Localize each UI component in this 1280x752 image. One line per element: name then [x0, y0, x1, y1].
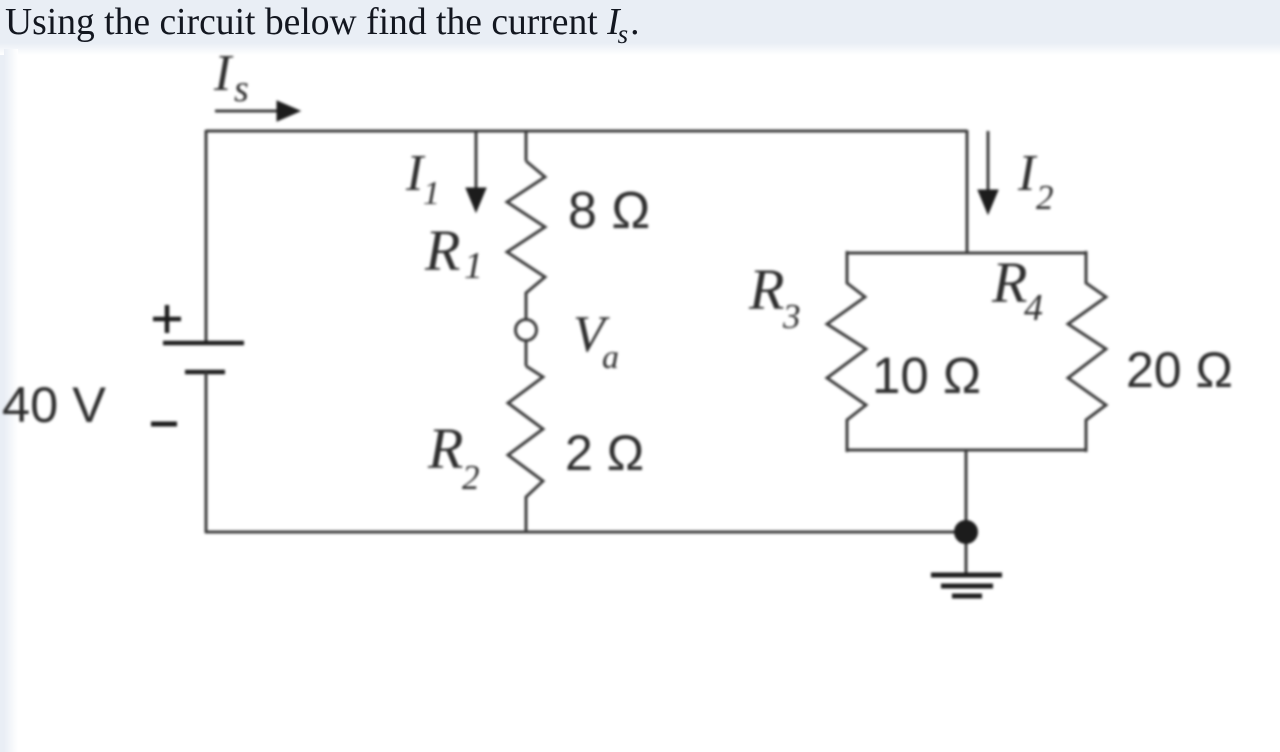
battery V1 plate short: [185, 370, 225, 375]
svg-text:2: 2: [462, 458, 480, 497]
svg-text:I: I: [213, 45, 234, 102]
svg-text:3: 3: [782, 297, 801, 336]
wire middle branch top: [525, 130, 528, 161]
wire bottom: [205, 531, 966, 534]
ground: [931, 575, 1002, 596]
svg-text:1: 1: [464, 245, 483, 287]
svg-text:R: R: [424, 218, 460, 283]
wire top: [206, 130, 967, 133]
resistor R1 zigzag: [507, 161, 545, 319]
arrow I1: [466, 131, 486, 212]
resistor R2 zigzag: [508, 366, 543, 533]
resistor R4: [1068, 251, 1106, 452]
svg-text:10 Ω: 10 Ω: [872, 347, 981, 404]
svg-text:2: 2: [1036, 178, 1054, 217]
resistor R3: [827, 251, 866, 452]
svg-text:I: I: [1017, 145, 1038, 202]
svg-text:8 Ω: 8 Ω: [568, 182, 650, 240]
arrow I2: [978, 131, 998, 214]
svg-text:R: R: [991, 250, 1027, 315]
svg-text:1: 1: [423, 175, 440, 212]
wire node to R2: [525, 341, 528, 366]
svg-text:20 Ω: 20 Ω: [1126, 342, 1233, 398]
svg-text:a: a: [602, 339, 619, 376]
wire parallel top bar: [847, 252, 1086, 255]
svg-text:40 V: 40 V: [2, 376, 106, 433]
battery minus sign: [151, 422, 177, 427]
wire left upper: [205, 130, 208, 343]
node a circle: [516, 320, 537, 341]
svg-text:R: R: [427, 416, 463, 481]
battery V1 plate long: [163, 341, 244, 346]
wire right vertical: [966, 130, 969, 253]
battery plus sign: [153, 305, 181, 333]
arrow Is: [215, 101, 300, 121]
svg-text:4: 4: [1024, 287, 1043, 329]
svg-text:s: s: [234, 68, 249, 110]
wire left lower: [205, 372, 208, 533]
wire parallel bottom bar: [847, 449, 1086, 452]
wire center down to ground: [965, 450, 968, 575]
svg-text:R: R: [748, 257, 784, 322]
svg-text:2 Ω: 2 Ω: [565, 425, 644, 481]
junction node dot: [955, 521, 978, 544]
